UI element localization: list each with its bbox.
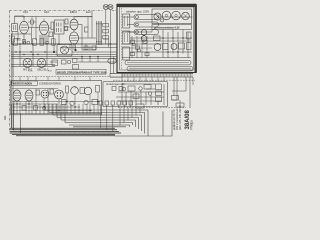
valve top view 2 xyxy=(162,11,171,20)
resistor R12 xyxy=(96,86,100,93)
chassis frame (dash-dot border) xyxy=(10,11,118,134)
mains unit bottom hatched band xyxy=(110,73,193,77)
component row on bus xyxy=(14,39,56,45)
wires: output section xyxy=(12,89,102,115)
wire: interior rows xyxy=(122,41,192,48)
wire: main bus xyxy=(11,43,117,45)
svg-text:EBC3: EBC3 xyxy=(70,10,77,14)
wires inside mains unit xyxy=(122,17,193,58)
capacitor C1 xyxy=(12,36,15,42)
switch S3 xyxy=(123,47,130,60)
resistor ladder beside T2 xyxy=(103,24,109,39)
junction dots row2 xyxy=(15,51,45,55)
heater chain strip xyxy=(152,25,192,30)
tube V8 xyxy=(84,87,92,95)
output section box xyxy=(11,81,102,115)
resistor R40 xyxy=(172,96,179,101)
capacitor C7 xyxy=(49,32,53,37)
svg-text:EL3: EL3 xyxy=(86,10,91,14)
IF transformer T1 xyxy=(55,20,65,34)
dial lamp pair on top frame xyxy=(103,4,113,10)
inner dashed partition xyxy=(121,8,123,70)
choke L30 xyxy=(187,43,192,50)
wire: title stub xyxy=(176,100,184,108)
extra interior verticals xyxy=(132,36,147,58)
capacitor block xyxy=(154,36,161,41)
cluster components xyxy=(122,84,161,102)
resistor R1 xyxy=(51,22,54,30)
ballast resistor bar 3 xyxy=(134,30,159,35)
resistor R2 xyxy=(23,40,26,45)
valve top view 4 xyxy=(182,12,190,20)
svg-text:CONDENSATOREN: CONDENSATOREN xyxy=(39,83,61,86)
tuning indicator box xyxy=(57,45,72,57)
parts list strip xyxy=(56,70,106,75)
capacitor C5 xyxy=(85,27,89,32)
small parts below bus xyxy=(84,46,96,50)
junction dots xyxy=(12,43,111,57)
tube V3b (pentode) xyxy=(70,32,79,44)
resistor R31 xyxy=(179,43,185,49)
electrolytic C30 xyxy=(154,44,161,51)
wire: grid cap run xyxy=(15,16,93,18)
antenna coil box xyxy=(12,24,18,32)
rectifier valve top view xyxy=(154,13,161,20)
svg-text:WEERSTANDEN: WEERSTANDEN xyxy=(13,83,33,86)
mains unit enclosure xyxy=(117,5,196,73)
output transformer T2 xyxy=(97,21,102,45)
tube V1 AF3 xyxy=(20,17,29,34)
ballast resistor bar 2 xyxy=(134,22,159,27)
extra interior parts xyxy=(131,40,150,56)
wire: dashed line under mains unit xyxy=(113,79,195,81)
socket view V5 xyxy=(55,90,64,99)
svg-text:C 21: C 21 xyxy=(28,71,33,73)
resistor R30 xyxy=(163,44,169,50)
capacitor C4 xyxy=(65,19,68,24)
svg-text:wisselstr. app. 220V: wisselstr. app. 220V xyxy=(126,10,149,14)
svg-text:gloeistroomketen 6.3V: gloeistroomketen 6.3V xyxy=(154,27,180,30)
wire: dashed line bottom right xyxy=(118,107,186,109)
switch S2 xyxy=(123,31,130,44)
small lamp xyxy=(160,19,163,22)
valve platform box xyxy=(152,9,192,24)
capacitor C2 xyxy=(17,39,21,41)
tube V2 AK2 xyxy=(39,19,48,35)
electrolytic C31 xyxy=(171,44,177,50)
wire: risers to separator xyxy=(20,77,90,81)
wires: mid horizontal runs xyxy=(11,44,117,76)
svg-text:220 V wisselstroom: 220 V wisselstroom xyxy=(176,108,179,130)
socket view V1 xyxy=(23,59,32,68)
tube V3a (triode) xyxy=(70,17,78,30)
small parts row xyxy=(22,100,98,111)
svg-text:WISSELSTROOMAPPARAAT TYPE 2030: WISSELSTROOMAPPARAAT TYPE 2030 xyxy=(57,71,107,75)
wire: risers near box xyxy=(108,44,114,77)
wire: extra top-left links xyxy=(28,17,88,39)
resistor R9 xyxy=(36,90,40,95)
resistor R9b xyxy=(50,89,54,94)
transformer winding circles xyxy=(141,30,147,36)
node dots in mains unit xyxy=(162,37,184,53)
wire: band risers xyxy=(122,77,164,81)
heater resistance bar B xyxy=(127,67,193,71)
wire: dashed separator line xyxy=(10,76,111,78)
capacitor C4b xyxy=(65,27,68,31)
terminal components row xyxy=(99,101,144,108)
wires: right drop-downs xyxy=(172,77,193,108)
wire: drops from terminal row xyxy=(101,105,140,131)
tube V4 (indicator) xyxy=(61,46,69,54)
svg-text:gelijkstroom 50 Hz: gelijkstroom 50 Hz xyxy=(173,109,176,130)
resistor R10 xyxy=(66,86,69,93)
svg-text:38A: 38A xyxy=(4,115,7,120)
node dots mid xyxy=(53,49,77,53)
modifications box xyxy=(103,82,168,107)
socket view V2 xyxy=(37,59,46,68)
wire: left edge verticals xyxy=(11,34,13,130)
band terminal box xyxy=(110,73,122,77)
pickup oval xyxy=(108,58,116,63)
cluster wires xyxy=(116,84,164,105)
cluster extra rects xyxy=(112,87,123,91)
interior circles xyxy=(133,43,141,52)
junction dots output section xyxy=(16,101,98,111)
resistor R11 xyxy=(80,88,85,94)
tube V6 output xyxy=(25,90,33,101)
svg-text:(110, 125, 145, 200 V): (110, 125, 145, 200 V) xyxy=(179,105,182,130)
tube V5 output xyxy=(13,90,21,101)
wires: top-left interconnect xyxy=(11,11,110,51)
wire bus: bottom band xyxy=(10,128,121,136)
capacitor C6 xyxy=(31,20,34,24)
ballast resistor bar 1 xyxy=(134,15,159,20)
svg-text:AF3: AF3 xyxy=(23,10,28,14)
voltage selector switch S1 xyxy=(123,14,130,28)
svg-text:AK2: AK2 xyxy=(44,10,49,14)
wire loops: nested returns xyxy=(45,110,172,136)
heater resistance bar A xyxy=(125,61,191,65)
svg-text:38A/08: 38A/08 xyxy=(185,109,191,129)
tube V7 xyxy=(71,87,79,95)
valve top view 3 xyxy=(172,11,181,20)
wire: left drops xyxy=(12,104,66,133)
section label strip 1 xyxy=(12,81,38,85)
component cluster mid xyxy=(52,59,79,70)
choke L31 xyxy=(187,32,192,39)
socket view V6b xyxy=(41,90,49,98)
